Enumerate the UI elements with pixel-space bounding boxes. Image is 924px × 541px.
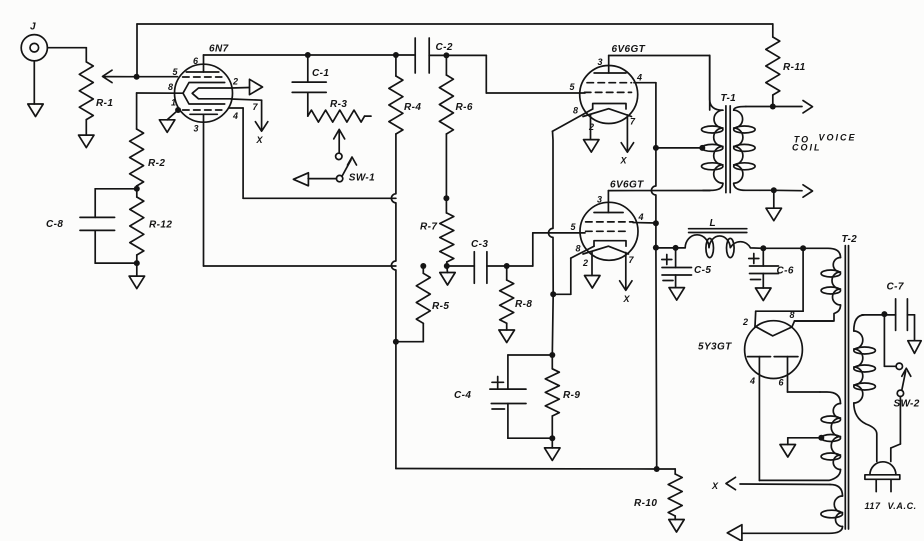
svg-text:8: 8 <box>168 82 173 92</box>
6V6-1 plate (pin 3) <box>594 56 626 74</box>
R-3 wiper arrow <box>334 129 345 153</box>
5Y3 pin 6 lead down <box>788 357 821 392</box>
transformer T-2 core <box>842 234 858 529</box>
capacitor C-4 (electrolytic) <box>454 355 552 438</box>
svg-text:2: 2 <box>582 258 588 268</box>
resistor R-3 (tone control) <box>308 92 371 122</box>
wire cathode bus to R-9 <box>551 294 554 355</box>
node F (R-6 top) <box>443 52 449 58</box>
wiper arrow of R-1 <box>103 70 137 82</box>
6N7 grid 1 dashes (pin 5) <box>173 67 222 77</box>
capacitor C-6 (electrolytic) <box>749 248 794 288</box>
svg-text:COIL: COIL <box>792 143 822 153</box>
svg-text:5: 5 <box>173 67 179 77</box>
node Y (primary/SW-2/C-7) <box>881 311 887 317</box>
node W (B+ / 5V winding / pin2) <box>800 245 806 251</box>
5Y3 pin 4 lead down <box>758 357 760 481</box>
svg-text:3: 3 <box>597 195 602 205</box>
6V6-2 heater chevron <box>583 246 629 254</box>
svg-text:6V6GT: 6V6GT <box>612 44 646 55</box>
node P (B+ top junction) <box>653 245 659 251</box>
6V6-1 heater chevron <box>583 109 632 117</box>
ground (C-6) <box>756 288 772 301</box>
svg-text:R-9: R-9 <box>563 390 580 401</box>
wire cathode bus down with hop <box>549 131 554 294</box>
wire B+ to T-2 <box>763 247 803 249</box>
svg-text:C-5: C-5 <box>694 265 711 276</box>
svg-text:SW-2: SW-2 <box>894 398 920 409</box>
6V6-2 plate wire to T-1 <box>608 190 710 192</box>
6N7 cathode lead to node <box>137 92 183 94</box>
label TO VOICE COIL <box>792 133 857 153</box>
6V6-1 pin 7 to X <box>620 115 637 166</box>
node N (R-9 top) <box>549 352 555 358</box>
wire R-4 down with hops <box>391 134 396 469</box>
svg-text:3: 3 <box>598 57 603 67</box>
ground (T-1 secondary) <box>766 190 782 220</box>
node E (R-4 top) <box>393 52 399 58</box>
6N7 inner bracket (pins 2,7) <box>192 88 231 99</box>
tube 5Y3GT envelope <box>745 321 803 379</box>
inductor L (filter choke) <box>676 218 764 258</box>
node Q (screen line / CT) <box>653 145 659 151</box>
SW-1 left arrow out <box>293 173 336 186</box>
node D (C-1 top) <box>305 52 311 58</box>
svg-text:VOICE: VOICE <box>819 133 857 143</box>
5Y3 pin 2 wire <box>742 248 803 327</box>
resistor R-4 <box>389 55 421 134</box>
6N7 pin 7 to X <box>231 99 268 145</box>
wire C-2 to 6V6GT no.1 grid <box>446 55 585 93</box>
node J2 (R-5 to R-4 line) <box>393 339 399 345</box>
resistor R-5 <box>396 266 449 342</box>
svg-text:8: 8 <box>573 106 578 116</box>
resistor R-10 <box>634 469 682 520</box>
6V6-2 screen grid dashes (pin 4) <box>586 212 656 223</box>
6V6-1 pin 2 to ground <box>584 114 600 152</box>
ground (R-12) <box>129 263 145 289</box>
T-1 secondary winding <box>734 107 760 191</box>
6N7 pin 4 wire down <box>229 108 396 198</box>
T-2 HV center tap to ground <box>780 438 821 457</box>
svg-text:L: L <box>710 218 717 229</box>
svg-text:X: X <box>256 135 264 145</box>
svg-text:C-7: C-7 <box>887 282 904 293</box>
node K (C-3 right / R-8) <box>504 263 510 269</box>
tube 6N7 envelope <box>175 64 233 122</box>
T-2 5V winding <box>795 248 841 321</box>
node I (R-5 top) <box>420 263 426 269</box>
ground (R-10) <box>669 520 684 533</box>
svg-text:4: 4 <box>636 73 642 83</box>
6V6-1 screen grid dashes (pin 4) <box>587 82 632 84</box>
ground (R-7) <box>440 266 455 285</box>
6N7 pin 6 plate wire to C-2 <box>204 54 416 56</box>
svg-text:6N7: 6N7 <box>209 44 229 55</box>
wire top feedback rail <box>137 23 773 25</box>
svg-text:2: 2 <box>232 77 238 87</box>
svg-text:SW-1: SW-1 <box>349 172 375 183</box>
wire feedback vertical <box>136 24 138 77</box>
wire screens/B+ vertical <box>655 223 657 247</box>
plug 117 VAC <box>865 462 917 511</box>
svg-text:R-8: R-8 <box>515 299 532 310</box>
node H (R-7 bottom) <box>444 263 450 269</box>
svg-text:R-7: R-7 <box>420 222 437 233</box>
T-2 HV winding <box>759 392 840 480</box>
6.3V bottom arrow out <box>727 525 742 541</box>
wire SW-2 to plug <box>891 397 901 462</box>
6N7 pin 2 arrow out <box>232 77 263 95</box>
wire B+ rail <box>656 247 676 249</box>
svg-text:6: 6 <box>779 378 785 388</box>
svg-text:R-10: R-10 <box>634 498 657 509</box>
hop screen line over plate wire <box>651 83 655 224</box>
svg-text:R-2: R-2 <box>148 158 165 169</box>
wire 6N7 pin5 grid lead <box>137 76 178 78</box>
svg-text:C-6: C-6 <box>777 266 794 277</box>
svg-text:5Y3GT: 5Y3GT <box>698 342 732 353</box>
6V6-2 cathode lead <box>553 246 594 294</box>
node G (R-6 bottom / R-7 top) <box>443 195 449 201</box>
wire B+ bottom rail <box>396 468 657 471</box>
6V6-1 plate wire to T-1 <box>609 56 710 111</box>
ground arrow (C-7) <box>908 341 921 354</box>
svg-text:4: 4 <box>232 111 238 121</box>
svg-text:T-1: T-1 <box>721 93 737 104</box>
svg-text:5: 5 <box>570 82 576 92</box>
6V6-1 control grid dashes (pin 5) <box>570 82 632 92</box>
wire jack to R-1 top <box>47 48 86 62</box>
capacitor C-5 (electrolytic) <box>662 248 712 288</box>
svg-text:8: 8 <box>576 244 581 254</box>
node A (grid junction, feedback/wiper/pin5) <box>134 74 140 80</box>
5Y3 plates (pins 4,6) <box>748 357 798 388</box>
wire C-2 right <box>429 54 446 56</box>
svg-text:3: 3 <box>194 124 199 134</box>
svg-text:C-4: C-4 <box>454 390 471 401</box>
resistor R-6 <box>439 55 472 198</box>
node X2 (HV center tap) <box>818 435 824 441</box>
6V6-2 pin 7 to X <box>620 253 635 305</box>
ground (R-9) <box>545 438 561 460</box>
node L2 (screen 2 to B+ line) <box>653 220 659 226</box>
capacitor C-7 <box>887 282 915 341</box>
capacitor C-8 <box>46 189 137 263</box>
6N7 cathode outer bracket (pin 8) <box>168 82 225 104</box>
node V (C-6 top) <box>760 245 766 251</box>
resistor R-2 <box>130 129 166 189</box>
ground (R-8) <box>499 330 515 343</box>
wire cathode down <box>136 93 138 129</box>
6V6-1 cathode lead <box>553 109 593 131</box>
6V6-1 cathode bracket (pin 8) <box>573 104 626 116</box>
svg-text:R-3: R-3 <box>330 99 347 110</box>
svg-text:V.A.C.: V.A.C. <box>888 501 917 511</box>
svg-text:4: 4 <box>749 376 755 386</box>
6N7 grid 2 dashes <box>183 109 222 111</box>
6V6-2 pin 2 to ground <box>582 252 600 288</box>
svg-text:117: 117 <box>865 501 882 511</box>
node Z (R-10 junction) <box>654 466 660 472</box>
svg-text:R-11: R-11 <box>783 62 806 73</box>
switch SW-1 <box>336 153 375 183</box>
svg-text:R-5: R-5 <box>432 301 449 312</box>
input jack J <box>21 22 47 61</box>
resistor R-9 <box>545 355 580 438</box>
svg-text:8: 8 <box>790 310 795 320</box>
capacitor C-2 <box>415 38 453 73</box>
svg-text:T-2: T-2 <box>842 234 858 245</box>
X heater arrow (6.3V top) <box>711 477 830 491</box>
svg-text:R-1: R-1 <box>96 98 113 109</box>
6N7 plate 2 (pin 3) <box>190 114 217 133</box>
node M (cathode bus junction) <box>550 291 556 297</box>
svg-text:C-8: C-8 <box>46 219 63 230</box>
switch SW-2 <box>884 314 919 409</box>
tube 6V6GT no.2 envelope <box>580 202 638 260</box>
svg-text:X: X <box>711 481 719 491</box>
svg-text:C-1: C-1 <box>312 68 329 79</box>
ground (C-5) <box>669 288 685 301</box>
5Y3 pin 8 wire <box>790 310 834 327</box>
svg-text:4: 4 <box>638 212 644 222</box>
T-2 6.3V winding <box>742 485 843 534</box>
T-1 primary winding <box>702 56 723 191</box>
node O (R-9 bottom) <box>549 435 555 441</box>
node B (R-2/R-12/C-8) <box>134 186 140 192</box>
tube 6V6GT no.1 envelope <box>580 66 638 124</box>
wire T-1 secondary bottom to arrow <box>760 185 813 197</box>
6V6-2 cathode bracket (pin 8) <box>576 241 627 254</box>
svg-text:C-3: C-3 <box>471 239 488 250</box>
node R (T-1 center tap) <box>699 145 705 151</box>
node S (R-11 / secondary top) <box>770 104 776 110</box>
svg-text:R-4: R-4 <box>404 102 421 113</box>
node C (R-12 bottom) <box>134 260 140 266</box>
wire C-3 to 6V6GT no.2 grid <box>507 233 585 266</box>
svg-text:R-12: R-12 <box>149 220 172 231</box>
6N7 plate 1 (pin 6) <box>186 55 219 72</box>
6N7 pin 1 dot and ground <box>159 98 181 133</box>
resistor R-1 (volume control) <box>79 62 113 135</box>
6N7 pin 3 wire down <box>204 114 396 266</box>
6V6-1 pin 4 wire <box>634 73 656 83</box>
node T2a (secondary bottom) <box>771 187 777 193</box>
svg-text:6V6GT: 6V6GT <box>610 180 644 191</box>
5Y3 filament chevron (pins 2,8) <box>755 326 792 336</box>
svg-text:R-6: R-6 <box>456 102 473 113</box>
resistor R-12 <box>130 189 173 263</box>
wire T-1 secondary top to arrow <box>746 101 813 113</box>
wire B+ vertical down <box>655 248 658 469</box>
resistor R-7 <box>420 198 454 266</box>
ground (jack) <box>28 61 43 117</box>
node U (C-5 top) <box>673 245 679 251</box>
svg-text:2: 2 <box>588 122 594 132</box>
wire T-1 center tap <box>656 147 702 149</box>
wire primary top to C-7 <box>862 314 896 316</box>
ground (R-1) <box>79 135 95 148</box>
svg-text:7: 7 <box>253 102 259 112</box>
svg-text:1: 1 <box>171 98 176 108</box>
svg-text:J: J <box>30 22 36 33</box>
resistor R-8 <box>500 266 533 330</box>
svg-text:X: X <box>623 294 631 304</box>
svg-text:2: 2 <box>742 317 748 327</box>
svg-text:7: 7 <box>629 255 635 265</box>
resistor R-11 <box>766 24 806 107</box>
6V6-2 plate (pin 3) <box>594 191 623 213</box>
svg-text:5: 5 <box>571 222 577 232</box>
capacitor C-1 <box>292 55 329 92</box>
transformer T-1 core <box>721 93 737 193</box>
svg-text:7: 7 <box>630 117 636 127</box>
6V6-2 control grid dashes (pin 5) <box>571 222 629 232</box>
T-2 primary winding <box>854 315 877 462</box>
capacitor C-3 <box>447 239 507 283</box>
svg-text:X: X <box>620 156 628 166</box>
svg-text:C-2: C-2 <box>436 42 453 53</box>
